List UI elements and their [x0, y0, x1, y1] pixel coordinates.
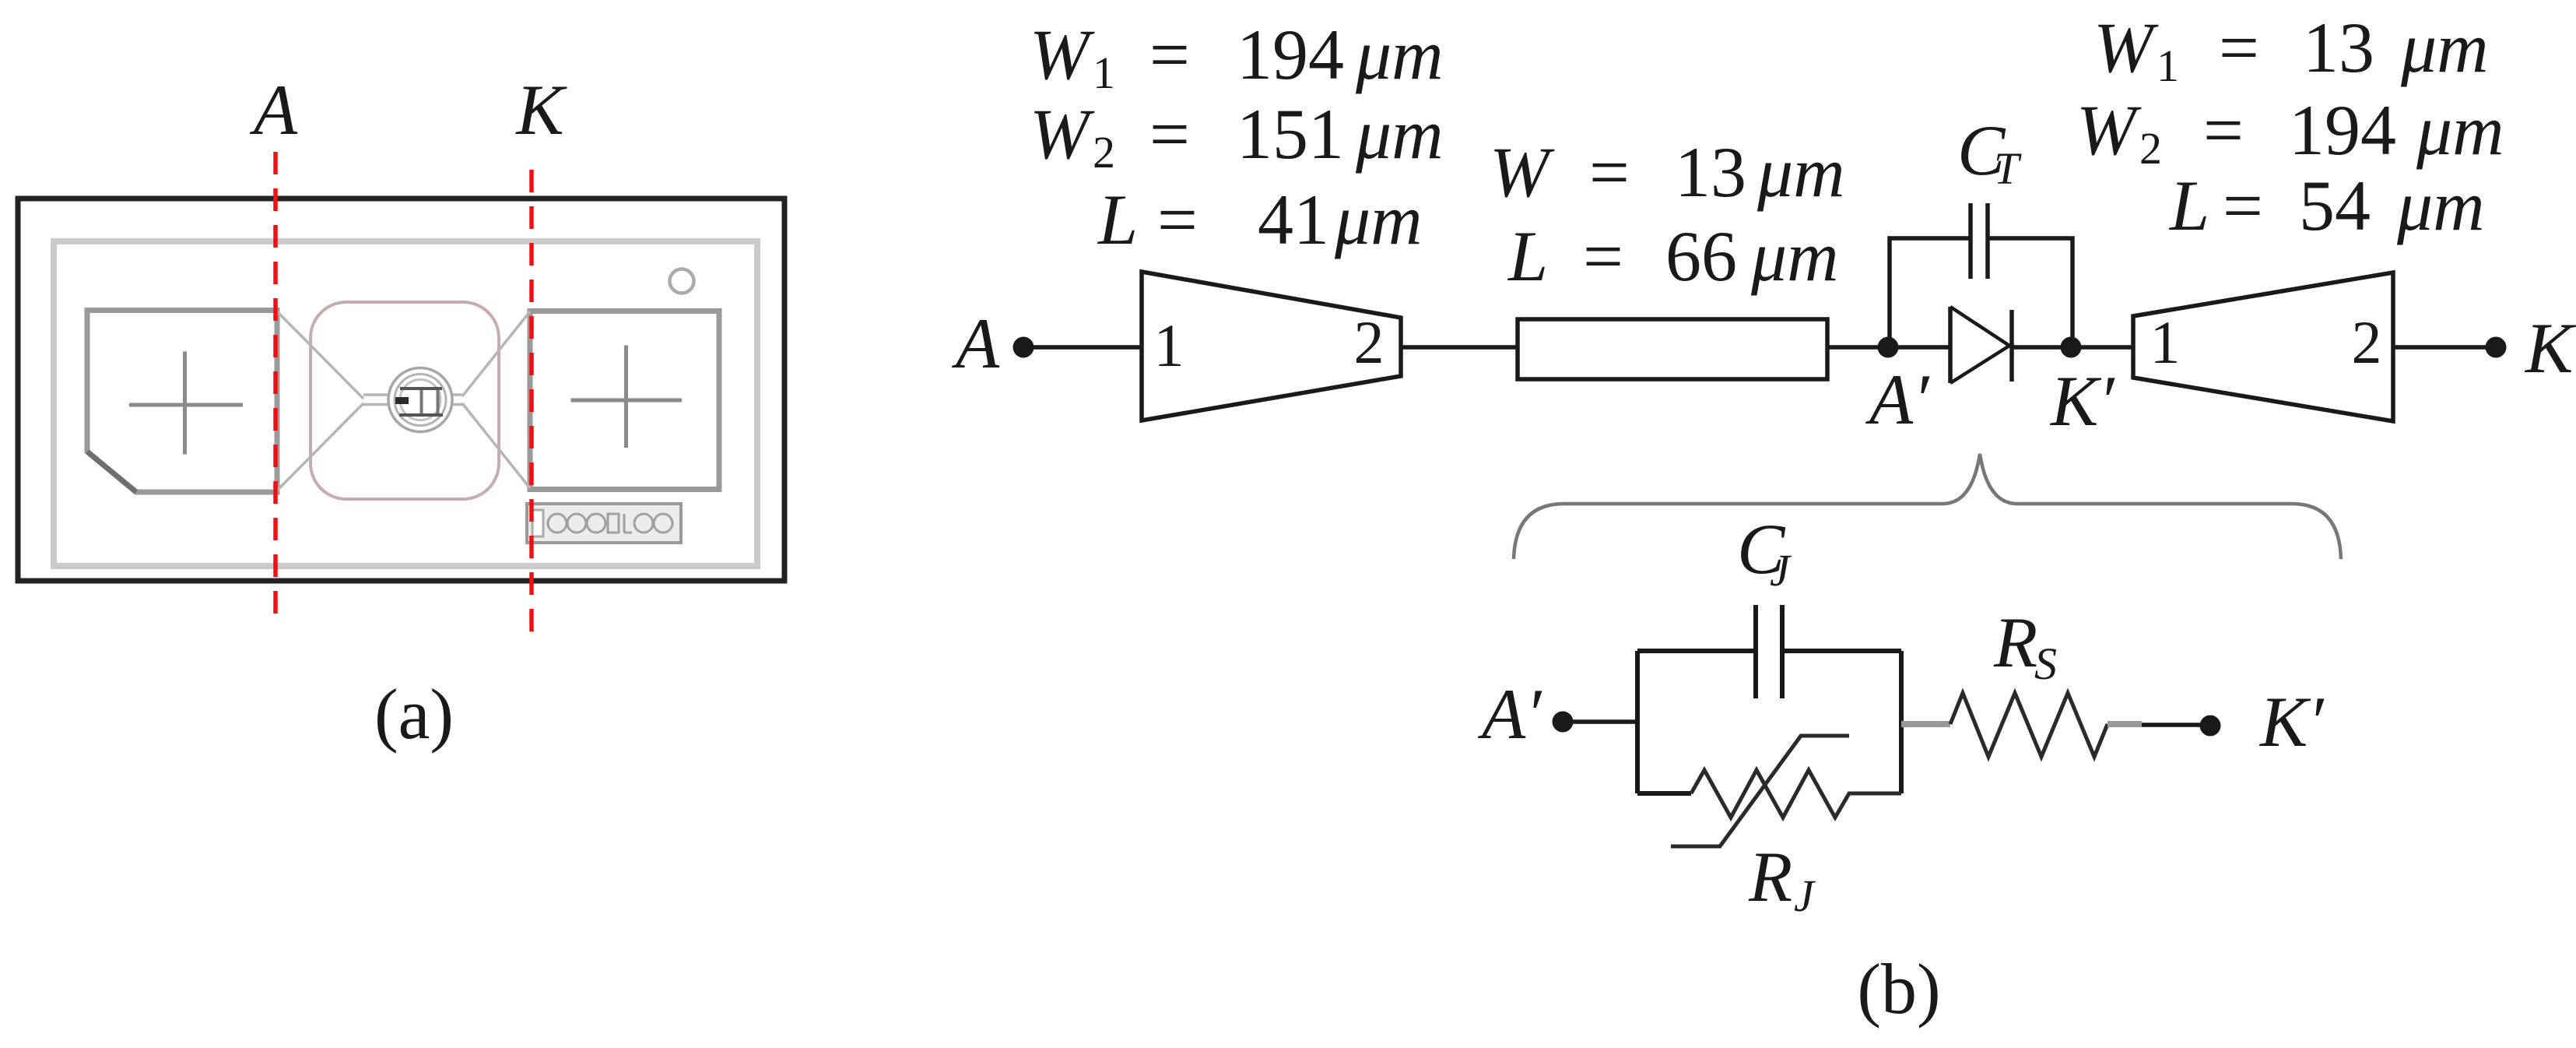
svg-text:(a): (a) — [374, 674, 454, 754]
svg-text:K: K — [514, 70, 567, 149]
center mesa rounded square — [311, 302, 499, 499]
section cut line A (red dashed) — [273, 152, 278, 624]
svg-text:2: 2 — [1354, 308, 1385, 376]
chip inner frame — [54, 241, 757, 566]
node A' junction dot — [1878, 337, 1899, 358]
wire taper2 to K — [2393, 345, 2496, 350]
node K' junction dot — [2061, 337, 2082, 358]
svg-text:13: 13 — [2303, 8, 2374, 87]
svg-text:L: L — [1097, 180, 1138, 259]
svg-text:151: 151 — [1237, 94, 1344, 174]
node K terminal dot — [2486, 337, 2507, 358]
svg-text:=: = — [2203, 90, 2244, 170]
bowtie feed upper-left — [277, 311, 363, 399]
parallel network left edge — [1635, 651, 1640, 793]
svg-text:W: W — [2093, 8, 2159, 87]
svg-text:μm: μm — [1750, 216, 1839, 296]
diode D1 anode bar and triangle — [1948, 307, 1953, 383]
svg-text:54: 54 — [2299, 166, 2371, 245]
left pad (anode pad) — [87, 311, 277, 493]
resistor RS zigzag — [1950, 693, 2107, 757]
feed neck right — [453, 395, 462, 405]
svg-text:1: 1 — [2150, 308, 2181, 376]
parallel network bottom edge left — [1637, 791, 1691, 796]
svg-text:T: T — [1994, 143, 2022, 194]
wire diode to node K' — [2012, 345, 2071, 350]
transmission line section — [1518, 319, 1827, 379]
svg-text:W: W — [1030, 15, 1095, 94]
svg-text:R: R — [1993, 603, 2037, 682]
svg-text:194: 194 — [1237, 15, 1344, 94]
right pad (cathode pad) — [530, 311, 719, 490]
svg-text:=: = — [1149, 94, 1190, 174]
diode D1 cathode bar — [2009, 310, 2014, 382]
svg-text:K′: K′ — [2258, 682, 2325, 761]
junction inner detail — [399, 389, 443, 415]
diode junction rings — [388, 368, 452, 432]
svg-text:(b): (b) — [1857, 949, 1940, 1029]
svg-text:A′: A′ — [1477, 674, 1542, 754]
svg-text:J: J — [1794, 870, 1816, 921]
wire line to node A' — [1827, 345, 1888, 350]
chip ID pseudo text — [548, 514, 672, 533]
left taper parameter text — [1030, 15, 1444, 259]
svg-text:K′: K′ — [2049, 361, 2115, 441]
right taper parameter text — [2076, 8, 2504, 245]
left pad chamfer — [87, 452, 136, 492]
bowtie feed upper-right — [462, 311, 530, 396]
svg-text:A′: A′ — [1865, 360, 1930, 439]
svg-text:2: 2 — [2139, 123, 2162, 174]
svg-text:S: S — [2034, 638, 2057, 689]
svg-text:A: A — [951, 304, 1000, 383]
svg-text:1: 1 — [1154, 311, 1184, 379]
section cut line K (red dashed) — [529, 170, 534, 632]
node K' (equiv) terminal dot — [2200, 716, 2221, 737]
wire A to taper1 — [1023, 345, 1142, 350]
svg-text:2: 2 — [2352, 308, 2382, 376]
capacitor CT left riser — [1890, 238, 1971, 347]
svg-text:=: = — [1589, 132, 1630, 212]
svg-text:L: L — [2168, 166, 2209, 245]
svg-text:K: K — [2524, 308, 2576, 388]
svg-text:R: R — [1748, 837, 1792, 916]
node A terminal dot — [1013, 337, 1034, 358]
svg-text:=: = — [2223, 166, 2263, 245]
capacitor CJ plates — [1756, 605, 1782, 698]
svg-text:=: = — [1149, 15, 1190, 94]
capacitor CT right riser — [1988, 238, 2072, 347]
wire K' to taper2 — [2071, 345, 2133, 350]
taper T2 (narrow to wide) — [2133, 273, 2393, 421]
svg-text:2: 2 — [1093, 127, 1115, 178]
right alignment cross — [571, 346, 683, 448]
svg-text:μm: μm — [1355, 15, 1444, 94]
svg-text:66: 66 — [1665, 216, 1737, 296]
wire A' to diode — [1888, 345, 1950, 350]
bowtie feed lower-left — [277, 403, 363, 491]
svg-text:μm: μm — [1334, 180, 1423, 259]
svg-text:=: = — [2219, 8, 2259, 87]
taper T1 (wide to narrow) — [1142, 272, 1401, 420]
chip ID label box — [527, 504, 681, 543]
svg-text:L: L — [1507, 216, 1548, 296]
svg-text:μm: μm — [1757, 132, 1845, 212]
svg-text:=: = — [1583, 216, 1623, 296]
svg-text:13: 13 — [1675, 132, 1746, 212]
svg-text:J: J — [1770, 545, 1792, 596]
parallel network top edge with capacitor CJ — [1637, 649, 1901, 653]
svg-text:μm: μm — [2400, 8, 2489, 87]
capacitor CT plates — [1971, 203, 1988, 279]
wire box to RS — [1901, 721, 1950, 727]
node A' (equiv) terminal dot — [1553, 712, 1574, 733]
resistor RJ adjust arrow — [1671, 736, 1849, 846]
svg-text:W: W — [1030, 94, 1095, 174]
svg-text:W: W — [2076, 90, 2142, 170]
svg-text:194: 194 — [2289, 90, 2396, 170]
svg-text:μm: μm — [2396, 166, 2485, 245]
svg-text:=: = — [1157, 180, 1198, 259]
resistor RJ zigzag — [1691, 770, 1901, 818]
svg-text:A: A — [249, 70, 298, 149]
chip outer border — [18, 199, 784, 581]
svg-text:41: 41 — [1258, 180, 1329, 259]
transmission line parameter text — [1490, 132, 1845, 296]
svg-text:1: 1 — [1093, 47, 1115, 98]
wire RS to K' — [2107, 721, 2142, 727]
svg-text:μm: μm — [2416, 90, 2504, 170]
parallel network right edge — [1899, 651, 1904, 793]
svg-text:1: 1 — [2157, 40, 2179, 91]
wire taper1 to line — [1401, 345, 1518, 350]
via circle top right — [670, 269, 694, 294]
wire A' to parallel box — [1563, 719, 1637, 724]
bowtie feed lower-right — [462, 403, 530, 488]
left alignment cross — [129, 352, 243, 455]
svg-text:W: W — [1490, 132, 1555, 212]
brace grouping diode — [1514, 454, 2341, 559]
svg-text:μm: μm — [1355, 94, 1444, 174]
feed neck left — [363, 395, 388, 405]
